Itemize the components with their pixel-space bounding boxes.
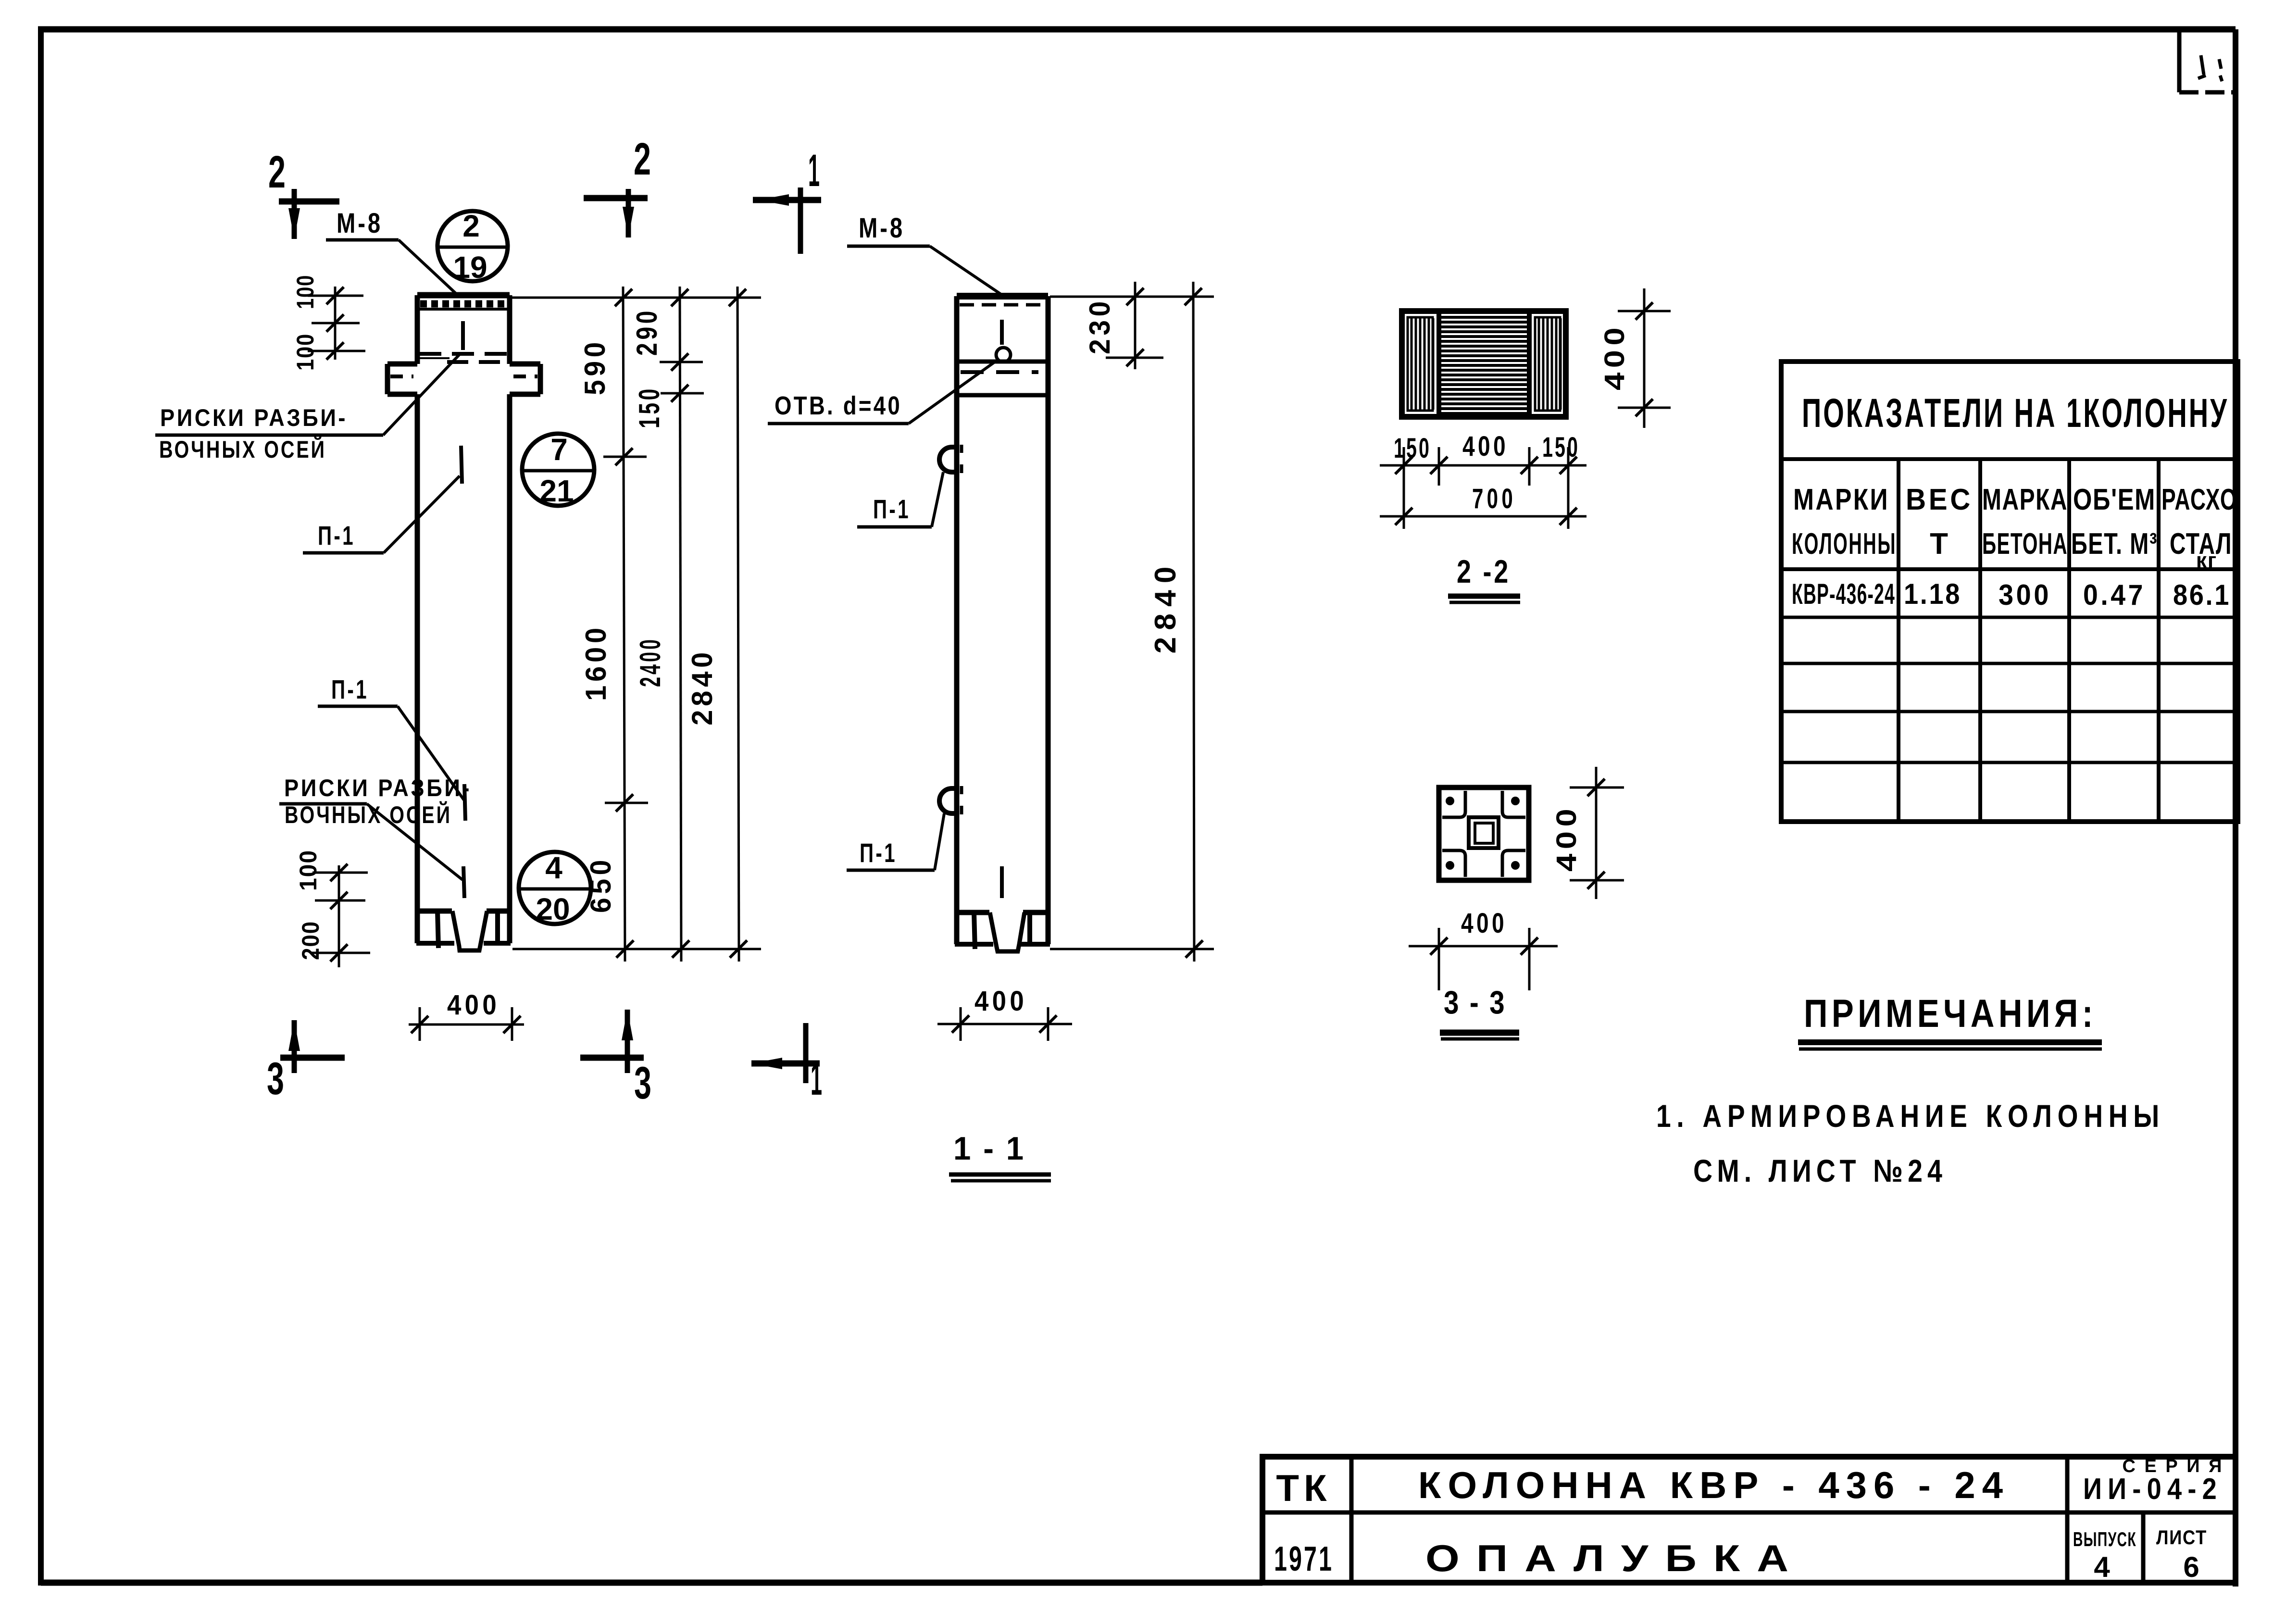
- table header: Marki kolonny: [1792, 483, 1897, 561]
- svg-text:2 -2: 2 -2: [1457, 553, 1511, 590]
- svg-text:400: 400: [974, 986, 1027, 1017]
- svg-text:М-8: М-8: [859, 212, 905, 244]
- view title 1-1: [949, 1130, 1051, 1181]
- extension line bottom of column front view: [512, 948, 761, 950]
- svg-text:ТК: ТК: [1276, 1467, 1331, 1509]
- table data row: KVR-436-24 1.18 300 0.47 86.1: [1792, 578, 2231, 611]
- svg-text:1.18: 1.18: [1904, 578, 1961, 610]
- svg-text:100: 100: [292, 333, 319, 371]
- svg-text:590: 590: [579, 338, 611, 395]
- svg-text:400: 400: [447, 989, 500, 1021]
- table header: Marka betona: [1982, 483, 2068, 561]
- section cut marker 3 (bottom middle): [580, 1010, 651, 1109]
- section 3-3: central dowel hole: [1469, 817, 1499, 848]
- reference bubble 7/21: [522, 432, 594, 508]
- svg-text:Т: Т: [1930, 527, 1949, 561]
- section cut marker 2 (top left): [268, 147, 339, 239]
- svg-text:КВР-436-24: КВР-436-24: [1792, 578, 1895, 610]
- label P-1 (side view lower) with leader: [847, 813, 944, 870]
- svg-text:400: 400: [1461, 908, 1507, 939]
- table header: Ves T: [1906, 483, 1973, 561]
- svg-text:4: 4: [2094, 1551, 2110, 1583]
- svg-text:290: 290: [631, 308, 663, 356]
- section title 2-2: [1448, 553, 1520, 602]
- svg-text:СМ. ЛИСТ №24: СМ. ЛИСТ №24: [1693, 1153, 1947, 1188]
- svg-text:3: 3: [634, 1058, 651, 1109]
- section 3-3: corner chamfer details with dots: [1442, 791, 1525, 877]
- extension line at 230 level: [1106, 357, 1163, 359]
- svg-text:МАРКА: МАРКА: [1982, 483, 2068, 516]
- label M-8 (front view) with leader: [326, 208, 457, 294]
- title block: vypusk 4: [2073, 1528, 2136, 1583]
- column side view: foot with dovetail notch: [955, 912, 1050, 951]
- svg-text:1. АРМИРОВАНИЕ КОЛОННЫ: 1. АРМИРОВАНИЕ КОЛОННЫ: [1656, 1098, 2165, 1134]
- dimension chain 100/200 at foot left: [295, 849, 370, 967]
- svg-text:400: 400: [1462, 431, 1509, 462]
- svg-text:ПРИМЕЧАНИЯ:: ПРИМЕЧАНИЯ:: [1804, 992, 2097, 1036]
- svg-text:19: 19: [453, 250, 487, 285]
- section cut marker 3 (bottom left): [267, 1020, 345, 1104]
- column front view: axis riska mark lower shaft: [464, 784, 465, 821]
- title block outline: [1262, 1457, 2236, 1583]
- svg-text:100: 100: [295, 849, 322, 891]
- svg-text:0.47: 0.47: [2083, 579, 2146, 611]
- svg-text:2: 2: [268, 147, 286, 198]
- label riski razbivochnykh osey (upper) with leader: [155, 353, 461, 463]
- label M-8 (side view) with leader: [847, 212, 1001, 294]
- dimension line 290/150/2400: [631, 287, 704, 962]
- notes heading: Primechaniya: [1798, 992, 2102, 1049]
- column front view: axis riska mark at foot: [463, 866, 464, 898]
- svg-text:3 - 3: 3 - 3: [1444, 984, 1506, 1021]
- column side view: joint lines and band at head: [957, 362, 1048, 395]
- dimension chain 150/400/150 under section 2-2: [1380, 431, 1586, 529]
- dimension 400 right of section 2-2: [1599, 288, 1671, 428]
- svg-text:ПОКАЗАТЕЛИ НА 1КОЛОННУ: ПОКАЗАТЕЛИ НА 1КОЛОННУ: [1802, 390, 2229, 436]
- lifting loop P-1 lower (side view): [939, 786, 962, 814]
- svg-text:1: 1: [808, 145, 820, 196]
- extension line bottom of side view: [1050, 948, 1214, 950]
- column side view: axis riska at foot: [1000, 866, 1004, 898]
- label riski razbivochnykh osey (lower) with leader: [279, 775, 472, 880]
- reference bubble 4/20: [519, 850, 591, 926]
- hole otv d=40 in side view: [996, 348, 1011, 362]
- document stamp box top-right corner: [2179, 32, 2233, 92]
- dimension 2840 (side view): [1149, 282, 1203, 962]
- svg-text:7: 7: [550, 432, 568, 467]
- title block: seriya II-04-2: [2083, 1456, 2224, 1506]
- svg-text:200: 200: [297, 921, 324, 960]
- section 3-3: bottom plan outline: [1439, 787, 1529, 880]
- column front view: axis riska mark upper shaft: [461, 446, 462, 484]
- svg-text:4: 4: [545, 850, 562, 885]
- svg-text:ОТВ. d=40: ОТВ. d=40: [774, 391, 902, 420]
- table header: Raskhod stali kg: [2161, 483, 2237, 572]
- title block: list 6: [2156, 1526, 2207, 1583]
- svg-text:РИСКИ РАЗБИ-: РИСКИ РАЗБИ-: [284, 775, 472, 801]
- svg-text:БЕТОНА: БЕТОНА: [1982, 527, 2068, 561]
- dimension line 590/1600/650: [579, 287, 648, 962]
- svg-text:КОЛОННА КВР - 436 - 24: КОЛОННА КВР - 436 - 24: [1418, 1464, 2010, 1506]
- dimension line 2840 (front view): [686, 287, 747, 962]
- svg-text:ИИ-04-2: ИИ-04-2: [2083, 1473, 2223, 1506]
- svg-text:П-1: П-1: [331, 674, 369, 704]
- dimension 400 under front view: [409, 989, 524, 1041]
- svg-text:400: 400: [1551, 804, 1582, 872]
- table header: Obyom bet. m3: [2071, 483, 2158, 561]
- svg-text:П-1: П-1: [860, 837, 897, 868]
- svg-text:КОЛОННЫ: КОЛОННЫ: [1792, 527, 1897, 561]
- svg-text:ОПАЛУБКА: ОПАЛУБКА: [1425, 1537, 1805, 1579]
- section 2-2: middle horizontal board hatch: [1441, 317, 1527, 413]
- svg-text:М-8: М-8: [337, 208, 383, 239]
- section cut marker 1 (top): [753, 145, 821, 254]
- column front view: head outline: [417, 295, 510, 364]
- svg-text:150: 150: [633, 386, 665, 428]
- section title 3-3: [1440, 984, 1519, 1039]
- column side view 1-1: shaft outline: [957, 296, 1048, 912]
- section 2-2: formwork plan outline: [1402, 311, 1566, 417]
- svg-text:86.1: 86.1: [2173, 579, 2231, 611]
- svg-text:150: 150: [1394, 433, 1431, 464]
- svg-text:ОБ'ЕМ: ОБ'ЕМ: [2073, 483, 2156, 516]
- svg-text:ВЕС: ВЕС: [1906, 483, 1973, 516]
- svg-text:20: 20: [536, 892, 570, 926]
- svg-text:21: 21: [539, 474, 574, 508]
- table: indicators per column (outline): [1781, 362, 2238, 822]
- dimension 230 (side view): [1084, 282, 1144, 369]
- section cut marker 1 (bottom): [751, 1023, 822, 1105]
- svg-text:ВЫПУСК: ВЫПУСК: [2073, 1528, 2136, 1550]
- svg-text:2400: 2400: [634, 637, 666, 687]
- dimension chain 100/100 at head left: [292, 275, 365, 371]
- svg-text:150: 150: [1542, 432, 1580, 463]
- svg-text:300: 300: [1999, 579, 2051, 611]
- column front view: M-8 mesh strip at top (dotted band): [418, 304, 509, 309]
- label P-1 (side view upper) with leader: [857, 472, 943, 527]
- column side view: axis riska at head: [1000, 320, 1004, 345]
- column front view: console flange: [387, 364, 540, 394]
- dimension 400 under side view: [937, 986, 1072, 1041]
- label P-1 (front view upper) with leader: [303, 476, 460, 553]
- svg-text:ЛИСТ: ЛИСТ: [2156, 1526, 2207, 1549]
- svg-text:П-1: П-1: [873, 494, 911, 524]
- svg-text:ВОЧНЫХ ОСЕЙ: ВОЧНЫХ ОСЕЙ: [159, 436, 326, 463]
- svg-text:БЕТ. М³: БЕТ. М³: [2071, 527, 2158, 561]
- column front view: foot with dovetail notch: [416, 911, 511, 950]
- dimension 700 under section 2-2: [1380, 483, 1586, 525]
- svg-text:2840: 2840: [686, 649, 718, 725]
- svg-text:100: 100: [292, 275, 319, 309]
- dimension 400 right of section 3-3: [1551, 767, 1624, 899]
- column front view: hidden dash lines at head bottom: [418, 354, 508, 362]
- svg-text:230: 230: [1084, 298, 1116, 354]
- svg-text:3: 3: [267, 1053, 284, 1104]
- svg-text:400: 400: [1599, 323, 1630, 390]
- svg-text:кг: кг: [2196, 549, 2217, 572]
- svg-text:6: 6: [2183, 1551, 2199, 1583]
- section 2-2: right board vertical hatch: [1535, 317, 1561, 411]
- svg-text:ВОЧНЫХ ОСЕЙ: ВОЧНЫХ ОСЕЙ: [285, 801, 452, 828]
- svg-text:2: 2: [462, 209, 480, 243]
- svg-text:1 - 1: 1 - 1: [953, 1130, 1025, 1167]
- svg-text:РАСХО: РАСХО: [2161, 483, 2237, 516]
- section 2-2: left board vertical hatch: [1408, 317, 1433, 411]
- svg-text:2840: 2840: [1149, 560, 1182, 654]
- column front view: axis riska mark on head: [461, 321, 465, 350]
- svg-text:1971: 1971: [1274, 1540, 1334, 1578]
- svg-text:РИСКИ РАЗБИ-: РИСКИ РАЗБИ-: [160, 404, 348, 431]
- svg-text:1600: 1600: [580, 624, 612, 701]
- svg-text:2: 2: [634, 134, 651, 185]
- svg-text:П-1: П-1: [318, 520, 355, 550]
- label otv. d=40 with leader: [768, 360, 998, 424]
- svg-text:700: 700: [1472, 483, 1516, 514]
- extension line top of column front view: [512, 297, 761, 299]
- section cut marker 2 (top middle): [584, 134, 651, 237]
- column front view: shaft: [417, 394, 510, 911]
- dimension 400 under section 3-3: [1409, 908, 1558, 990]
- svg-text:МАРКИ: МАРКИ: [1793, 483, 1889, 516]
- lifting loop P-1 upper (side view): [939, 445, 962, 473]
- extension line top of side view: [1050, 296, 1214, 298]
- reference bubble 2/19: [437, 209, 508, 285]
- label P-1 (front view lower) with leader: [318, 674, 464, 800]
